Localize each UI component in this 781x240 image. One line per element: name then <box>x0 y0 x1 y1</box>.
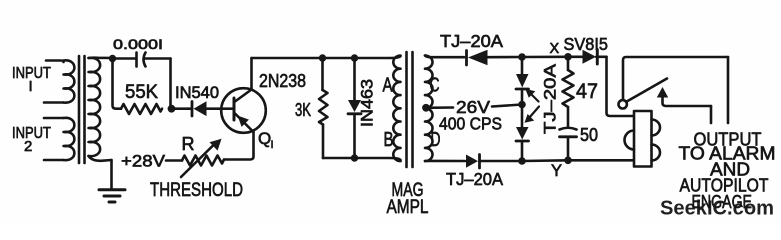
label 47 <box>576 79 598 103</box>
wire +28V stub to rheostat <box>166 159 182 162</box>
wire top rail to X node <box>522 55 568 58</box>
wire bottom rail to Y node <box>522 159 568 162</box>
svg-text:55K: 55K <box>125 81 158 103</box>
label A <box>383 75 393 97</box>
switch S1 arm <box>626 79 667 102</box>
svg-text:TJ–20A: TJ–20A <box>446 169 503 189</box>
svg-text:AMPL: AMPL <box>387 197 429 218</box>
svg-text:Y: Y <box>551 162 562 180</box>
transformer T1 primary winding 2 (INPUT 2) <box>44 118 74 160</box>
label AND <box>710 159 750 180</box>
label THRESHOLD <box>150 179 243 201</box>
resistor 55K <box>121 104 162 114</box>
switch S1 pivot wire <box>623 57 728 100</box>
diode CR5 (upper vertical, pointing down) <box>516 57 529 104</box>
svg-text:TJ–20A: TJ–20A <box>541 63 560 134</box>
svg-text:C: C <box>430 75 440 97</box>
label 0.0001 <box>113 37 163 52</box>
transformer T2 core <box>407 52 413 167</box>
transformer T2 right winding C/D <box>425 56 433 162</box>
label 55K <box>125 81 158 103</box>
svg-text:R: R <box>182 134 195 154</box>
junction dot 55K / capacitor / diode <box>168 105 176 113</box>
resistor 47 <box>563 57 574 127</box>
switch S1 pivot circle <box>619 100 627 108</box>
transformer T1 secondary winding <box>89 58 113 161</box>
svg-text:THRESHOLD: THRESHOLD <box>150 179 243 201</box>
diode CR3 TJ-20A (top, pointing left) <box>467 50 523 65</box>
resistor 3K <box>319 58 328 158</box>
output lead from pivot rail <box>727 57 730 123</box>
node dot top rail above 1N463 <box>351 54 358 61</box>
label IN540 <box>175 84 219 102</box>
label Y <box>551 162 562 180</box>
svg-text:400 CPS: 400 CPS <box>439 114 502 134</box>
transformer T1 core <box>79 56 85 163</box>
svg-text:TJ–20A: TJ–20A <box>440 31 503 51</box>
label 400 CPS <box>439 114 502 134</box>
node dot bottom rail at diode branch <box>518 157 526 165</box>
wire top rail collector to MAG AMPL winding A <box>252 56 401 58</box>
label TJ-20A (vertical) <box>541 63 560 134</box>
svg-text:IN540: IN540 <box>175 84 219 102</box>
label TJ-20A (top) <box>440 31 503 51</box>
label Q1 <box>258 129 274 151</box>
svg-text:X: X <box>550 41 560 57</box>
wire junction to diode cathode <box>172 107 192 110</box>
node dot top rail at diode branch <box>518 53 526 61</box>
node X dot <box>564 53 572 61</box>
arrow pointer to upper diode <box>525 89 538 102</box>
wire capacitor right down to junction <box>169 59 172 109</box>
label R <box>182 134 195 154</box>
label TO ALARM <box>679 143 776 164</box>
ground <box>99 160 125 202</box>
wire collector up to top rail <box>250 58 253 90</box>
label 2N238 <box>259 70 306 91</box>
node dot top rail above 3K <box>319 54 326 61</box>
label ENGAGE <box>692 191 753 212</box>
label AUTOPILOT <box>680 175 769 196</box>
diode CR2 1N463 <box>348 58 361 158</box>
svg-text:47: 47 <box>576 79 598 103</box>
transistor Q1 2N238 <box>221 88 266 133</box>
wire X to SV815 diode <box>568 55 584 58</box>
label B <box>384 129 394 151</box>
node dot bottom rail below 1N463 <box>351 154 358 161</box>
node Y dot <box>564 157 572 165</box>
label INPUT 2 <box>12 125 51 155</box>
svg-text:2: 2 <box>24 138 32 155</box>
svg-text:+28V: +28V <box>121 153 165 171</box>
node dot at transformer secondary top <box>109 55 116 62</box>
diode CR4 SV815 (pointing right) <box>583 50 607 65</box>
svg-text:0.000I: 0.000I <box>113 37 163 52</box>
svg-text:I: I <box>29 78 33 95</box>
transformer T1 primary winding 1 (INPUT 1) <box>44 60 74 102</box>
svg-text:50: 50 <box>580 125 598 145</box>
label 50 <box>580 125 598 145</box>
svg-text:Q: Q <box>258 129 271 148</box>
watermark SeekIC.com <box>660 197 774 220</box>
arrow pointer to lower diode <box>525 107 540 123</box>
wire bottom rail 3K to winding B <box>323 158 401 160</box>
output lead from arrow contact <box>710 106 713 123</box>
relay coil K1 <box>625 111 661 167</box>
capacitor C2 50 <box>560 128 577 161</box>
transformer center tap dot <box>422 104 430 112</box>
label IN463 (vertical) <box>359 79 377 127</box>
wire emitter down and left to rheostat <box>224 132 254 160</box>
svg-text:B: B <box>384 129 394 151</box>
capacitor C1 0.0001 <box>137 53 171 67</box>
label AMPL <box>387 197 429 218</box>
wire secondary top node to capacitor <box>113 57 137 60</box>
svg-text:2N238: 2N238 <box>259 70 306 91</box>
label INPUT 1 <box>12 65 51 95</box>
rheostat R THRESHOLD <box>181 139 224 177</box>
switch S1 fixed contact arrow <box>657 87 711 106</box>
svg-text:SV8I5: SV8I5 <box>564 34 609 54</box>
diode CR6 (lower vertical, pointing down) <box>516 105 529 162</box>
wire Y to relay coil <box>568 159 634 162</box>
diode CR7 TJ-20A (bottom, pointing right) <box>466 155 522 169</box>
svg-text:I: I <box>271 139 274 151</box>
node dot center tap junction <box>518 101 526 109</box>
label 26V <box>456 97 490 117</box>
svg-text:SeekIC.com: SeekIC.com <box>660 197 774 220</box>
wire node down to 55K left end <box>113 59 122 109</box>
label OUTPUT <box>694 129 762 150</box>
label +28V <box>121 153 165 171</box>
svg-text:A: A <box>383 75 393 97</box>
label TJ-20A (bottom) <box>446 169 503 189</box>
transformer T2 MAG AMPL left winding A/B <box>393 56 400 162</box>
wire winding D bottom to diode <box>425 160 465 163</box>
svg-text:3K: 3K <box>295 100 311 120</box>
label 3K <box>295 100 311 120</box>
label C <box>430 75 440 97</box>
diode CR1 1N540 <box>192 101 233 116</box>
wire 26V label to diode branch <box>492 105 522 107</box>
label D <box>431 129 441 151</box>
svg-text:IN463: IN463 <box>359 79 377 127</box>
label X <box>550 41 560 57</box>
wire winding C top to diode <box>425 56 464 58</box>
label SV815 <box>564 34 609 54</box>
label MAG <box>392 180 424 201</box>
wire center tap to 26V label <box>426 106 453 109</box>
wire SV815 down to relay coil <box>607 57 635 116</box>
